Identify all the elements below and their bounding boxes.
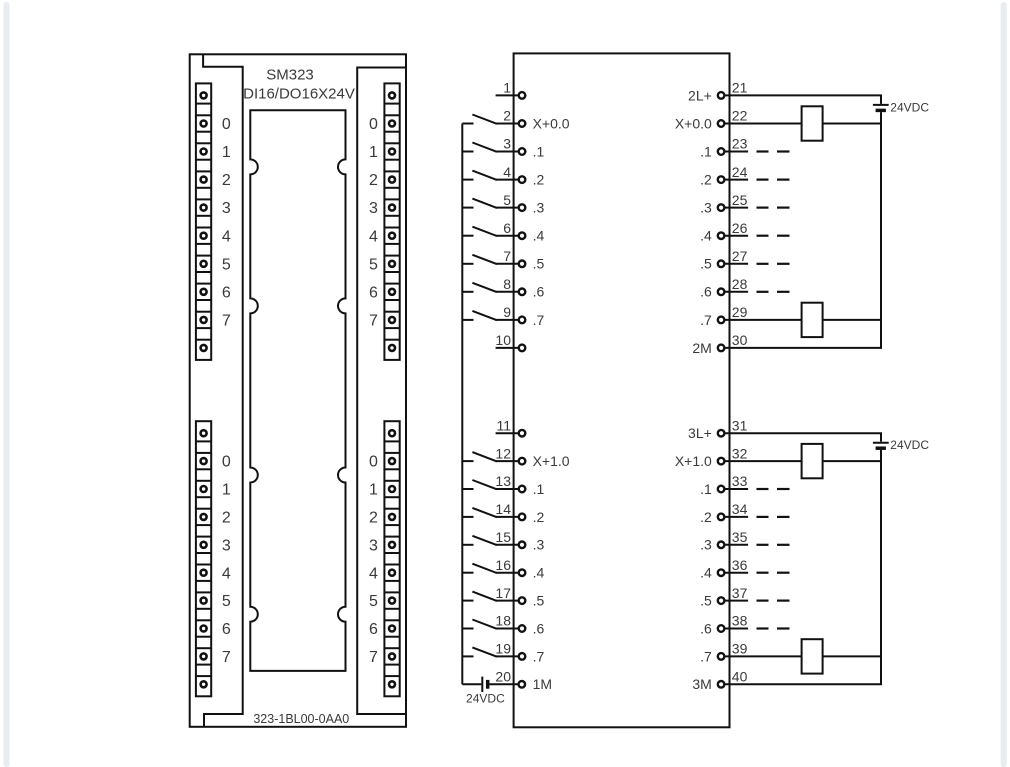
svg-text:3: 3	[369, 537, 378, 554]
switch contact at input terminal 17	[462, 600, 473, 602]
terminal 15 circle	[519, 542, 526, 549]
svg-text:0: 0	[222, 454, 231, 471]
svg-text:2L+: 2L+	[688, 87, 712, 103]
svg-text:18: 18	[495, 613, 511, 629]
svg-text:14: 14	[495, 501, 511, 517]
svg-text:15: 15	[495, 529, 511, 545]
terminal 30 wire to bus	[725, 347, 882, 349]
svg-text:24VDC: 24VDC	[890, 100, 929, 114]
svg-text:7: 7	[503, 248, 511, 264]
svg-text:X+0.0: X+0.0	[533, 115, 570, 131]
svg-text:6: 6	[503, 220, 511, 236]
svg-text:.1: .1	[700, 143, 712, 159]
terminal 34 wire stub	[725, 516, 748, 518]
terminal 4 wire stub	[496, 179, 519, 181]
terminal 10 circle	[519, 345, 526, 352]
battery 24VDC (output supply) long plate	[873, 442, 889, 444]
terminal 32 circle	[718, 458, 725, 465]
switch contact at input terminal 3	[462, 151, 473, 153]
battery 24VDC (output supply) long plate	[873, 104, 889, 106]
svg-text:.4: .4	[700, 565, 712, 581]
svg-text:2: 2	[369, 510, 378, 527]
svg-text:2: 2	[503, 108, 511, 124]
svg-text:.5: .5	[700, 256, 712, 272]
svg-text:4: 4	[503, 164, 511, 180]
terminal 20 wire from bus through battery	[462, 683, 481, 685]
svg-text:7: 7	[222, 313, 231, 330]
svg-text:2: 2	[222, 510, 231, 527]
terminal 18 circle	[519, 625, 526, 632]
svg-text:.3: .3	[700, 200, 712, 216]
terminal 24 wire stub	[725, 179, 748, 181]
svg-text:21: 21	[732, 80, 748, 96]
svg-text:6: 6	[369, 621, 378, 638]
svg-text:27: 27	[732, 248, 748, 264]
terminal 1 wire stub	[496, 94, 519, 96]
terminal 31 circle	[718, 430, 725, 437]
terminal 21 circle	[718, 92, 725, 99]
svg-text:38: 38	[732, 613, 748, 629]
svg-text:4: 4	[369, 228, 378, 245]
svg-text:3: 3	[369, 200, 378, 217]
switch contact at input terminal 19	[462, 655, 473, 657]
terminal 3 circle	[519, 148, 526, 155]
dashed continuation at terminal 27	[757, 263, 769, 265]
terminal 33 circle	[718, 486, 725, 493]
terminal 28 circle	[718, 289, 725, 296]
terminal 13 wire stub	[496, 488, 519, 490]
dashed continuation at terminal 37	[757, 599, 769, 601]
svg-text:26: 26	[732, 220, 748, 236]
terminal 13 circle	[519, 486, 526, 493]
terminal 7 circle	[519, 261, 526, 268]
svg-text:0: 0	[222, 116, 231, 133]
dashed continuation at terminal 28	[757, 291, 769, 293]
terminal 39 circle	[718, 653, 725, 660]
switch contact at input terminal 13	[462, 488, 473, 490]
terminal 5 circle	[519, 204, 526, 211]
svg-text:.5: .5	[533, 256, 545, 272]
svg-text:9: 9	[503, 304, 511, 320]
terminal 26 circle	[718, 232, 725, 239]
terminal 4 circle	[519, 176, 526, 183]
svg-text:3: 3	[503, 136, 511, 152]
terminal 16 wire stub	[496, 572, 519, 574]
load (actuator) on output .7	[802, 303, 823, 337]
terminal 34 circle	[718, 514, 725, 521]
terminal 19 wire stub	[496, 655, 519, 657]
switch contact at input terminal 14	[462, 516, 473, 518]
svg-text:4: 4	[222, 228, 231, 245]
terminal 35 wire stub	[725, 544, 748, 546]
svg-text:.1: .1	[700, 481, 712, 497]
terminal 37 circle	[718, 597, 725, 604]
svg-text:.3: .3	[533, 537, 545, 553]
terminal 20 circle	[519, 681, 526, 688]
terminal 2 wire stub	[496, 123, 519, 125]
terminal 33 wire stub	[725, 488, 748, 490]
module center channel with mounting notches	[250, 110, 345, 671]
svg-text:4: 4	[369, 565, 378, 582]
svg-text:.2: .2	[533, 509, 545, 525]
terminal strip lower-left (inputs 1.0-1.7)	[196, 421, 211, 696]
svg-text:323-1BL00-0AA0: 323-1BL00-0AA0	[253, 712, 349, 726]
svg-text:39: 39	[732, 641, 748, 657]
svg-text:13: 13	[495, 473, 511, 489]
switch contact at input terminal 15	[462, 544, 473, 546]
terminal 27 wire stub	[725, 263, 748, 265]
terminal 9 circle	[519, 317, 526, 324]
svg-text:.1: .1	[533, 143, 545, 159]
terminal 39 wire to bus	[725, 655, 882, 657]
svg-text:35: 35	[732, 529, 748, 545]
svg-text:17: 17	[495, 585, 511, 601]
terminal 8 circle	[519, 289, 526, 296]
switch contact at input terminal 5	[462, 207, 473, 209]
svg-text:0: 0	[369, 116, 378, 133]
terminal 3 wire stub	[496, 151, 519, 153]
svg-text:8: 8	[503, 276, 511, 292]
terminal strip upper-right (outputs 0-7)	[384, 83, 399, 360]
battery 24VDC (output supply) short plate	[876, 446, 886, 450]
terminal 23 wire stub	[725, 151, 748, 153]
svg-text:5: 5	[503, 192, 511, 208]
switch contact at input terminal 8	[462, 291, 473, 293]
terminal 29 wire to bus	[725, 319, 882, 321]
terminal 25 wire stub	[725, 207, 748, 209]
svg-text:24VDC: 24VDC	[890, 438, 929, 452]
dashed continuation at terminal 24	[757, 179, 769, 181]
svg-text:29: 29	[732, 304, 748, 320]
svg-text:20: 20	[495, 669, 511, 685]
svg-text:.5: .5	[533, 593, 545, 609]
svg-text:36: 36	[732, 557, 748, 573]
svg-text:3: 3	[222, 200, 231, 217]
svg-text:24VDC: 24VDC	[466, 692, 505, 706]
terminal 7 wire stub	[496, 263, 519, 265]
terminal 14 circle	[519, 514, 526, 521]
terminal 40 circle	[718, 681, 725, 688]
switch contact at input terminal 9	[462, 319, 473, 321]
terminal 12 wire stub	[496, 460, 519, 462]
battery 24VDC (input supply) long plate	[481, 677, 483, 692]
svg-text:.2: .2	[700, 509, 712, 525]
terminal 17 wire stub	[496, 600, 519, 602]
terminal 8 wire stub	[496, 291, 519, 293]
dashed continuation at terminal 25	[757, 207, 769, 209]
output load supply bus (right)	[880, 433, 882, 442]
switch contact at input terminal 18	[462, 628, 473, 630]
svg-text:2: 2	[222, 172, 231, 189]
svg-text:.6: .6	[700, 620, 712, 636]
svg-text:6: 6	[222, 284, 231, 301]
battery 24VDC (input supply) short plate	[486, 680, 490, 689]
terminal 6 wire stub	[496, 235, 519, 237]
switch contact at input terminal 2	[462, 123, 473, 125]
svg-text:19: 19	[495, 641, 511, 657]
svg-text:32: 32	[732, 445, 748, 461]
switch contact at input terminal 4	[462, 179, 473, 181]
svg-text:6: 6	[222, 621, 231, 638]
load (actuator) on output X+0.0	[802, 106, 823, 140]
svg-text:.1: .1	[533, 481, 545, 497]
page edge band right	[1001, 2, 1007, 767]
terminal 16 circle	[519, 569, 526, 576]
module SM323 front-panel outline	[190, 54, 406, 727]
terminal 36 circle	[718, 569, 725, 576]
wiring diagram: module body rectangle	[514, 53, 730, 727]
terminal 27 circle	[718, 261, 725, 268]
svg-text:.6: .6	[533, 620, 545, 636]
svg-text:.4: .4	[533, 565, 545, 581]
terminal 35 circle	[718, 542, 725, 549]
svg-text:1: 1	[369, 482, 378, 499]
switch contact at input terminal 12	[462, 460, 473, 462]
svg-text:.4: .4	[533, 228, 545, 244]
svg-text:2: 2	[369, 172, 378, 189]
switch contact at input terminal 6	[462, 235, 473, 237]
svg-text:3: 3	[222, 537, 231, 554]
load (actuator) on output .7	[802, 639, 823, 673]
svg-text:10: 10	[495, 332, 511, 348]
svg-text:23: 23	[732, 136, 748, 152]
front-panel right wing edge	[357, 68, 406, 715]
front-panel left step notches and left wing edge	[203, 54, 243, 727]
svg-text:1: 1	[503, 80, 511, 96]
terminal 30 circle	[718, 345, 725, 352]
terminal 9 wire stub	[496, 319, 519, 321]
svg-text:.2: .2	[533, 172, 545, 188]
svg-text:1: 1	[369, 144, 378, 161]
svg-text:30: 30	[732, 332, 748, 348]
svg-text:5: 5	[222, 593, 231, 610]
svg-text:5: 5	[222, 256, 231, 273]
terminal 6 circle	[519, 232, 526, 239]
svg-text:X+1.0: X+1.0	[533, 453, 570, 469]
svg-text:X+1.0: X+1.0	[675, 453, 712, 469]
svg-text:28: 28	[732, 276, 748, 292]
terminal 25 circle	[718, 204, 725, 211]
svg-text:.3: .3	[533, 200, 545, 216]
svg-text:.6: .6	[533, 284, 545, 300]
svg-text:2M: 2M	[692, 340, 711, 356]
svg-text:31: 31	[732, 417, 748, 433]
terminal 22 circle	[718, 120, 725, 127]
terminal 1 circle	[519, 92, 526, 99]
terminal 26 wire stub	[725, 235, 748, 237]
svg-text:.7: .7	[700, 312, 712, 328]
svg-text:.7: .7	[533, 312, 545, 328]
terminal 22 wire to bus	[725, 123, 882, 125]
svg-text:1: 1	[222, 144, 231, 161]
terminal 32 wire to bus	[725, 460, 882, 462]
svg-text:SM323: SM323	[266, 67, 314, 84]
dashed continuation at terminal 34	[757, 516, 769, 518]
svg-text:.6: .6	[700, 284, 712, 300]
terminal 24 circle	[718, 176, 725, 183]
switch contact at input terminal 7	[462, 263, 473, 265]
battery 24VDC (output supply) short plate	[876, 109, 886, 113]
svg-text:24: 24	[732, 164, 748, 180]
terminal 12 circle	[519, 458, 526, 465]
dashed continuation at terminal 36	[757, 572, 769, 574]
dashed continuation at terminal 35	[757, 544, 769, 546]
terminal 19 circle	[519, 653, 526, 660]
terminal 36 wire stub	[725, 572, 748, 574]
terminal 40 wire to bus	[725, 683, 882, 685]
svg-text:.7: .7	[533, 648, 545, 664]
svg-text:34: 34	[732, 501, 748, 517]
svg-text:5: 5	[369, 256, 378, 273]
terminal 29 circle	[718, 317, 725, 324]
terminal 38 wire stub	[725, 628, 748, 630]
svg-text:.7: .7	[700, 648, 712, 664]
terminal 18 wire stub	[496, 628, 519, 630]
page edge band left	[3, 2, 9, 767]
svg-text:22: 22	[732, 108, 748, 124]
output load supply bus (right)	[880, 95, 882, 104]
svg-text:3M: 3M	[692, 676, 711, 692]
svg-text:1: 1	[222, 482, 231, 499]
svg-text:5: 5	[369, 593, 378, 610]
terminal 21 wire to bus	[725, 94, 882, 96]
svg-text:25: 25	[732, 192, 748, 208]
load (actuator) on output X+1.0	[802, 444, 823, 478]
svg-text:33: 33	[732, 473, 748, 489]
terminal 28 wire stub	[725, 291, 748, 293]
terminal 11 circle	[519, 430, 526, 437]
svg-text:DI16/DO16X24V: DI16/DO16X24V	[243, 85, 355, 102]
dashed continuation at terminal 38	[757, 627, 769, 629]
svg-text:7: 7	[222, 649, 231, 666]
svg-text:4: 4	[222, 565, 231, 582]
terminal 2 circle	[519, 120, 526, 127]
input common bus (left)	[461, 124, 463, 685]
svg-text:1M: 1M	[533, 676, 552, 692]
svg-text:7: 7	[369, 313, 378, 330]
svg-text:40: 40	[732, 669, 748, 685]
svg-text:16: 16	[495, 557, 511, 573]
terminal 11 wire stub	[496, 432, 519, 434]
terminal strip lower-right (outputs 1.0-1.7)	[384, 421, 399, 696]
terminal 14 wire stub	[496, 516, 519, 518]
terminal 17 circle	[519, 597, 526, 604]
svg-text:12: 12	[495, 445, 511, 461]
terminal 10 wire stub	[496, 347, 519, 349]
dashed continuation at terminal 33	[757, 488, 769, 490]
terminal 31 wire to bus	[725, 432, 882, 434]
svg-text:X+0.0: X+0.0	[675, 115, 712, 131]
svg-text:.2: .2	[700, 172, 712, 188]
svg-text:.5: .5	[700, 593, 712, 609]
svg-text:.4: .4	[700, 228, 712, 244]
terminal 38 circle	[718, 625, 725, 632]
svg-text:7: 7	[369, 649, 378, 666]
terminal 15 wire stub	[496, 544, 519, 546]
dashed continuation at terminal 26	[757, 235, 769, 237]
svg-text:3L+: 3L+	[688, 425, 712, 441]
terminal 5 wire stub	[496, 207, 519, 209]
svg-text:11: 11	[496, 417, 511, 433]
svg-text:37: 37	[732, 585, 748, 601]
svg-text:.3: .3	[700, 537, 712, 553]
dashed continuation at terminal 23	[757, 150, 769, 152]
svg-text:0: 0	[369, 454, 378, 471]
switch contact at input terminal 16	[462, 572, 473, 574]
terminal 23 circle	[718, 148, 725, 155]
svg-text:6: 6	[369, 284, 378, 301]
terminal 37 wire stub	[725, 600, 748, 602]
terminal strip upper-left (inputs 0-7)	[196, 83, 211, 360]
